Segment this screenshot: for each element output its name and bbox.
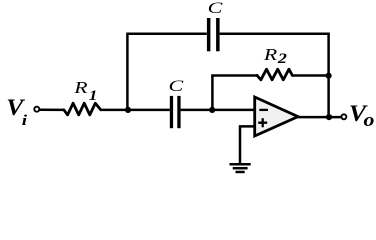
- wire: [298, 116, 342, 119]
- svg-text:o: o: [364, 110, 375, 130]
- wire: [101, 109, 170, 112]
- node R2-output junction: [326, 73, 332, 79]
- svg-text:R: R: [263, 46, 278, 64]
- svg-text:i: i: [22, 112, 28, 129]
- label R2: [263, 46, 287, 67]
- label C (top): [208, 0, 223, 17]
- label C (series): [169, 78, 184, 95]
- capacitor C (series): [170, 96, 181, 128]
- wire: [327, 33, 330, 118]
- wire: [220, 33, 330, 36]
- node output junction: [326, 114, 332, 120]
- wire: [212, 76, 257, 111]
- svg-text:1: 1: [89, 88, 98, 104]
- svg-text:R: R: [73, 79, 88, 97]
- wire: [181, 109, 255, 112]
- svg-text:C: C: [169, 78, 184, 95]
- node B: [209, 107, 215, 113]
- svg-text:C: C: [208, 0, 223, 17]
- node Vo terminal: [341, 114, 346, 119]
- label Vo: [349, 101, 375, 131]
- label Vi: [6, 95, 27, 128]
- wire: [126, 33, 207, 36]
- wire: [240, 126, 255, 163]
- svg-text:2: 2: [277, 50, 287, 67]
- node Vi terminal: [34, 107, 39, 112]
- label R1: [73, 79, 97, 104]
- resistor R1: [64, 103, 101, 115]
- ground: [230, 164, 251, 172]
- capacitor C (top): [207, 18, 220, 51]
- op-amp U1: [255, 97, 298, 136]
- resistor R2: [257, 69, 292, 80]
- node A: [125, 107, 131, 113]
- wire: [292, 74, 328, 77]
- wire: [126, 34, 129, 111]
- wire: [39, 109, 64, 112]
